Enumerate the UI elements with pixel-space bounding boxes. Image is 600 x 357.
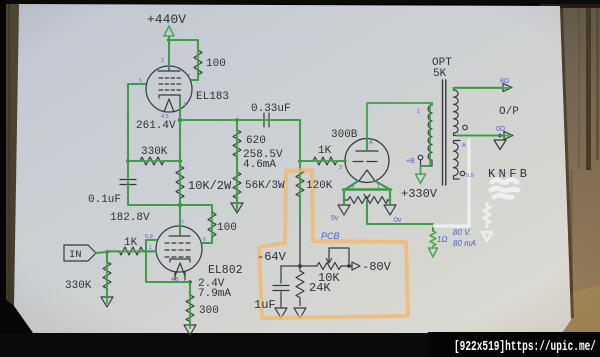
wire B+ to primary xyxy=(421,160,433,166)
wire trace 10K2W drop xyxy=(179,120,181,205)
node bias left xyxy=(298,264,302,268)
ground arrow 5V xyxy=(338,200,350,215)
EL183 cathode xyxy=(159,95,180,98)
resistor 1K input xyxy=(107,247,145,255)
wire trace 300B grid row xyxy=(300,160,346,162)
node +440V supply dot xyxy=(167,38,171,42)
wire +440V to anode xyxy=(168,37,170,66)
node cathode EL802 xyxy=(188,280,192,284)
wire trace input shunt xyxy=(106,252,108,303)
node 620 top xyxy=(235,118,239,122)
resistor 10K/2W xyxy=(176,166,184,205)
EL183 grids dashes xyxy=(159,78,181,90)
capacitor 0.33uF plates xyxy=(264,113,269,127)
wire trace filament left xyxy=(344,181,358,204)
black frame left xyxy=(0,0,6,357)
ground arrow 0V xyxy=(384,200,396,215)
wire trace 330K row xyxy=(128,160,180,162)
EL802 heater xyxy=(175,263,185,280)
ground arrow below 56K/3W xyxy=(231,203,243,213)
resistor 330K upper xyxy=(128,157,180,165)
EL802 grid lead xyxy=(145,250,156,252)
300B filament xyxy=(359,170,375,181)
ground arrow below 330K lower xyxy=(101,297,113,307)
ground arrow KNFB node xyxy=(494,140,506,150)
arrow 0ohm output xyxy=(504,132,513,140)
black corner bottom-left xyxy=(0,295,33,333)
ground arrow below 24K xyxy=(294,308,306,318)
node 300B grid top xyxy=(298,159,302,163)
wire trace 261.4V rail xyxy=(180,120,300,161)
black frame top xyxy=(0,0,600,4)
wire trace 300B anode xyxy=(367,103,432,150)
resistor 24K xyxy=(296,266,304,306)
wire trace 120K drop xyxy=(299,161,301,218)
svg-text:[922x519]https://upic.me/: [922x519]https://upic.me/ xyxy=(454,339,596,355)
node 182.8V xyxy=(178,203,182,207)
whiteout old knfb wire vertical xyxy=(434,140,469,226)
wire trace OPT primary side xyxy=(421,105,431,174)
resistor R 100 (EL802 screen) xyxy=(201,205,216,243)
node bias right xyxy=(347,264,351,268)
ground arrow below 1uF xyxy=(275,308,287,318)
resistor 330K lower xyxy=(103,252,111,298)
ground arrow below 300 xyxy=(184,325,196,335)
wire grid down-left EL183 xyxy=(127,84,129,161)
wire trace 8ohm output xyxy=(454,87,511,89)
rheostat 10K wiper xyxy=(326,248,349,266)
EL183 cathode lead to node xyxy=(179,95,181,120)
wire hum wiper to 1ohm xyxy=(367,224,433,231)
whiteout old ground arrow xyxy=(482,232,492,241)
node 330K right xyxy=(178,159,182,163)
resistor 620 xyxy=(233,120,241,172)
green blob 56K ground xyxy=(236,198,238,208)
EL183 grid lead pin1 xyxy=(128,83,146,85)
background desk wood right side xyxy=(540,0,600,357)
resistor 300 cathode xyxy=(186,282,194,325)
tube EL183 envelope xyxy=(146,66,192,112)
wire trace EL802 anode xyxy=(179,205,181,232)
shadow right paper edge xyxy=(562,8,573,318)
capacitor 1uF bias xyxy=(273,266,289,308)
resistor 120K xyxy=(296,161,304,267)
resistor 1K 300B grid xyxy=(300,157,345,165)
wire trace 0.1uF branch xyxy=(128,161,212,243)
wire to screen resistor xyxy=(169,40,198,50)
wire trace hum wiper run xyxy=(367,200,433,231)
capacitor 0.1uF xyxy=(120,161,136,205)
wire trace cathode EL183 xyxy=(179,98,181,120)
secondary 8ohm lead xyxy=(454,87,504,89)
wire trace input grid xyxy=(96,252,156,254)
black band bottom xyxy=(0,333,600,357)
wire trace filament right xyxy=(375,181,390,204)
secondary 0 lead xyxy=(454,133,505,136)
node 330K left xyxy=(126,159,130,163)
wire trace filament bar xyxy=(343,188,391,191)
supply arrow +440V xyxy=(164,26,174,36)
OPT core xyxy=(443,80,446,185)
wire trace 0ohm output xyxy=(457,134,511,136)
resistor 1 ohm green xyxy=(430,231,436,247)
300B grid dashes xyxy=(353,161,377,163)
arrow 8ohm output xyxy=(503,84,512,92)
wire trace 620/56K branch xyxy=(236,120,238,210)
rheostat 10K element xyxy=(317,263,352,270)
EL183 heater xyxy=(164,99,174,112)
EL802 cathode xyxy=(170,259,190,262)
knfb winding bottom lead xyxy=(454,176,460,179)
wire 182.8V rail xyxy=(128,204,212,206)
resistor R 100 (EL183 screen) xyxy=(194,50,202,75)
hum pot stubs xyxy=(344,190,390,201)
secondary 0 tap circle xyxy=(463,125,468,130)
hum pot wiper arrow xyxy=(364,195,370,225)
background desk wood left strip xyxy=(3,0,25,357)
connector IN xyxy=(64,245,96,261)
wire screen resistor to pin7 xyxy=(191,70,198,80)
bias rail -64V xyxy=(281,265,317,267)
wire node to coupling cap xyxy=(180,119,262,121)
wire g3 to cathode L xyxy=(146,240,190,282)
wire trace g3 cathode loop xyxy=(146,240,190,328)
watermark band xyxy=(428,332,600,357)
EL183 anode plate xyxy=(158,66,180,71)
EL802 grids dashes xyxy=(165,243,190,257)
resistor 56K/3W xyxy=(233,172,241,203)
arrow 1 ohm down xyxy=(429,248,438,257)
knfb bottom terminal circle xyxy=(460,171,464,175)
whiteout old resistor xyxy=(484,203,490,227)
wire IN to grid node xyxy=(96,252,107,253)
B+ terminal circle xyxy=(418,155,423,160)
tube EL802 envelope xyxy=(156,226,202,272)
node 261.4V xyxy=(178,118,182,122)
wire trace grid EL183 xyxy=(128,84,145,161)
tube 300B envelope xyxy=(345,139,389,183)
EL802 g3 lead xyxy=(146,239,157,241)
hum pot element xyxy=(348,197,388,204)
wire trace +440V down xyxy=(168,37,170,66)
OPT secondary winding xyxy=(454,88,459,134)
filament bar xyxy=(344,189,390,191)
300B filament leads xyxy=(346,181,389,189)
node 0 lead ground xyxy=(498,134,502,138)
OPT primary winding xyxy=(428,103,432,160)
orange highlighter PCB outline xyxy=(259,170,408,318)
node input xyxy=(105,250,109,254)
whiteout scribble blobs xyxy=(491,180,518,198)
wire cap to 300B grid node xyxy=(269,120,300,161)
wire 261.4V node down xyxy=(179,120,181,166)
arrow -80V output xyxy=(352,262,360,270)
wire trace screen branch xyxy=(169,40,198,80)
EL802 anode lead xyxy=(169,205,190,236)
300B anode plate xyxy=(356,140,378,151)
OPT knfb winding xyxy=(454,141,461,176)
supply arrow +330V xyxy=(416,174,426,184)
